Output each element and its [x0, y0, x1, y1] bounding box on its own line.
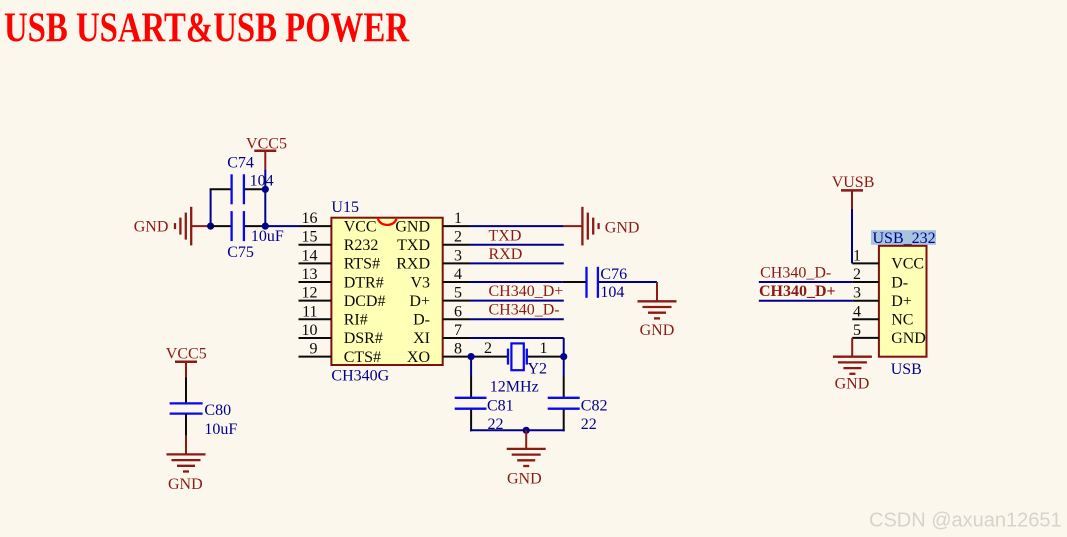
svg-text:C81: C81: [487, 398, 514, 415]
svg-text:D+: D+: [891, 293, 912, 310]
svg-text:USB: USB: [891, 361, 922, 378]
svg-text:VUSB: VUSB: [832, 174, 875, 191]
svg-text:5: 5: [853, 322, 861, 339]
pin 2 TXD (right): [397, 229, 470, 254]
wire to pin 16: [265, 225, 298, 227]
svg-text:13: 13: [302, 266, 318, 283]
svg-text:GND: GND: [891, 330, 926, 347]
svg-text:3: 3: [454, 247, 462, 264]
capacitor C75: [227, 211, 284, 261]
wire pin5 to ground: [851, 338, 853, 357]
svg-text:DCD#: DCD#: [344, 293, 386, 310]
net CH340_D+ (USB): [759, 283, 852, 301]
svg-text:RTS#: RTS#: [344, 256, 380, 273]
svg-text:6: 6: [454, 303, 462, 320]
svg-text:GND: GND: [134, 218, 169, 235]
svg-text:DSR#: DSR#: [344, 330, 383, 347]
svg-text:U15: U15: [331, 199, 359, 216]
net TXD: [470, 228, 564, 245]
svg-text:15: 15: [302, 229, 318, 246]
wire VCC5 to C80: [185, 378, 187, 404]
pin 16 VCC (left): [299, 210, 377, 235]
svg-text:4: 4: [454, 266, 462, 283]
svg-text:DTR#: DTR#: [344, 274, 384, 291]
svg-text:GND: GND: [605, 220, 640, 237]
svg-text:VCC5: VCC5: [166, 346, 207, 363]
svg-text:RXD: RXD: [396, 256, 430, 273]
pin 5 D+ (right): [409, 285, 470, 310]
pin 2 D- (USB): [852, 266, 908, 291]
svg-text:RXD: RXD: [489, 246, 523, 263]
ground GND (left, sideways): [134, 207, 191, 246]
svg-text:GND: GND: [168, 476, 203, 493]
node junction C75 right: [262, 223, 269, 230]
connector USB_232 label: [871, 230, 936, 247]
svg-text:9: 9: [310, 341, 318, 358]
svg-text:GND: GND: [395, 218, 430, 235]
power flag VCC5 (top): [246, 135, 287, 169]
pin 3 RXD (right): [396, 247, 470, 272]
pin 10 DSR# (left): [299, 322, 383, 347]
pin 4 NC (USB): [852, 303, 913, 328]
wire left branch down: [470, 357, 472, 432]
wire C74 top row: [210, 188, 266, 190]
svg-text:16: 16: [302, 210, 318, 227]
svg-text:C74: C74: [227, 155, 254, 172]
svg-text:R232: R232: [344, 237, 379, 254]
wire V3 to C76: [470, 281, 586, 283]
svg-text:CH340_D+: CH340_D+: [489, 283, 564, 300]
ground GND (C80): [167, 454, 206, 493]
pin 6 D- (right): [413, 303, 470, 328]
wire C75 bottom row: [211, 225, 266, 227]
svg-text:11: 11: [302, 303, 317, 320]
ground GND (pin1, sideways): [582, 207, 639, 246]
node junction crystal right: [560, 353, 567, 360]
svg-text:CH340G: CH340G: [331, 368, 389, 385]
svg-text:4: 4: [853, 303, 861, 320]
svg-text:12: 12: [302, 285, 318, 302]
wire XO row: [470, 356, 564, 358]
svg-text:8: 8: [454, 341, 462, 358]
pin 1 GND (right): [395, 210, 470, 235]
pin 13 DTR# (left): [299, 266, 384, 291]
svg-text:XO: XO: [407, 349, 430, 366]
capacitor C74: [227, 155, 273, 205]
svg-text:12MHz: 12MHz: [490, 379, 539, 396]
pin 3 D+ (USB): [852, 285, 912, 310]
svg-text:TXD: TXD: [489, 228, 522, 245]
wire C80 to ground: [185, 414, 187, 454]
svg-text:CH340_D-: CH340_D-: [489, 302, 560, 319]
power flag VCC5 (bottom): [166, 346, 207, 378]
pin 1 VCC (USB): [852, 247, 924, 272]
node junction XO: [468, 353, 475, 360]
svg-text:1: 1: [540, 340, 548, 357]
svg-text:3: 3: [853, 285, 861, 302]
svg-text:104: 104: [600, 284, 624, 301]
title USB USART&USB POWER: [4, 5, 410, 51]
svg-text:1: 1: [454, 210, 462, 227]
svg-text:RI#: RI#: [344, 312, 368, 329]
svg-text:CH340_D-: CH340_D-: [760, 264, 831, 281]
svg-text:1: 1: [853, 247, 861, 264]
net CH340_D+ (chip): [470, 283, 564, 301]
svg-text:10uF: 10uF: [204, 421, 237, 438]
svg-text:GND: GND: [835, 376, 870, 393]
wire GND stub to junction: [191, 225, 210, 227]
net CH340_D- (USB): [759, 264, 852, 282]
svg-text:14: 14: [302, 247, 318, 264]
pin 11 RI# (left): [299, 303, 368, 328]
net RXD: [470, 246, 564, 263]
pin 4 V3 (right): [410, 266, 470, 291]
svg-text:C76: C76: [600, 266, 627, 283]
svg-text:C82: C82: [581, 398, 608, 415]
ground GND (C76): [638, 301, 677, 339]
wire left vertical: [210, 189, 212, 227]
svg-text:D+: D+: [409, 293, 430, 310]
svg-text:10: 10: [302, 322, 318, 339]
pin 14 RTS# (left): [299, 247, 381, 272]
svg-text:D-: D-: [891, 274, 908, 291]
svg-text:7: 7: [454, 322, 462, 339]
node junction left: [207, 223, 214, 230]
wire to crystal ground: [525, 430, 527, 449]
pin 5 GND (USB): [852, 322, 926, 347]
wire C76 to ground: [599, 282, 658, 301]
svg-text:XI: XI: [413, 330, 430, 347]
svg-text:104: 104: [250, 173, 274, 190]
svg-text:TXD: TXD: [397, 237, 430, 254]
svg-text:NC: NC: [891, 312, 913, 329]
svg-text:2: 2: [484, 340, 492, 357]
node junction C74 right: [262, 186, 269, 193]
wire XI route: [470, 338, 564, 357]
svg-text:22: 22: [581, 416, 597, 433]
svg-text:CH340_D+: CH340_D+: [759, 283, 836, 300]
pin 8 XO (right): [407, 341, 470, 366]
capacitor C80: [170, 402, 238, 438]
node junction bottom: [523, 427, 530, 434]
watermark CSDN: [869, 510, 1062, 532]
wire crystal bottom: [470, 429, 565, 431]
svg-text:D-: D-: [413, 312, 430, 329]
svg-text:CTS#: CTS#: [344, 349, 381, 366]
svg-text:C75: C75: [227, 244, 254, 261]
pin 7 XI (right): [413, 322, 470, 347]
svg-text:GND: GND: [507, 471, 542, 488]
wire VUSB vertical: [851, 209, 853, 263]
svg-text:GND: GND: [640, 322, 675, 339]
capacitor C82: [548, 398, 608, 434]
svg-text:CSDN @axuan12651: CSDN @axuan12651: [869, 510, 1062, 532]
svg-text:C80: C80: [204, 402, 231, 419]
wire pin1 to ground: [470, 225, 582, 227]
svg-text:VCC: VCC: [344, 218, 377, 235]
ground GND (USB): [833, 357, 872, 393]
capacitor C76: [587, 266, 628, 301]
capacitor C81: [455, 398, 514, 433]
crystal Y2: [484, 340, 548, 396]
svg-text:USB USART&USB POWER: USB USART&USB POWER: [4, 5, 410, 51]
pin 15 R232 (left): [299, 229, 379, 254]
ground GND (crystal): [507, 449, 546, 488]
svg-text:Y2: Y2: [528, 361, 548, 378]
wire right branch down: [563, 357, 565, 432]
svg-text:2: 2: [454, 229, 462, 246]
svg-text:V3: V3: [410, 274, 430, 291]
wire VCC5 vertical: [264, 169, 266, 226]
net CH340_D- (chip): [470, 302, 564, 320]
svg-text:5: 5: [454, 285, 462, 302]
svg-text:USB_232: USB_232: [873, 230, 936, 247]
svg-text:VCC: VCC: [891, 256, 924, 273]
svg-text:10uF: 10uF: [251, 228, 284, 245]
power flag VUSB: [832, 174, 875, 209]
pin 12 DCD# (left): [299, 285, 386, 310]
connector USB body: [879, 246, 927, 378]
pin 9 CTS# (left): [299, 341, 382, 366]
svg-text:2: 2: [853, 266, 861, 283]
IC U15 CH340G body: [331, 199, 442, 385]
